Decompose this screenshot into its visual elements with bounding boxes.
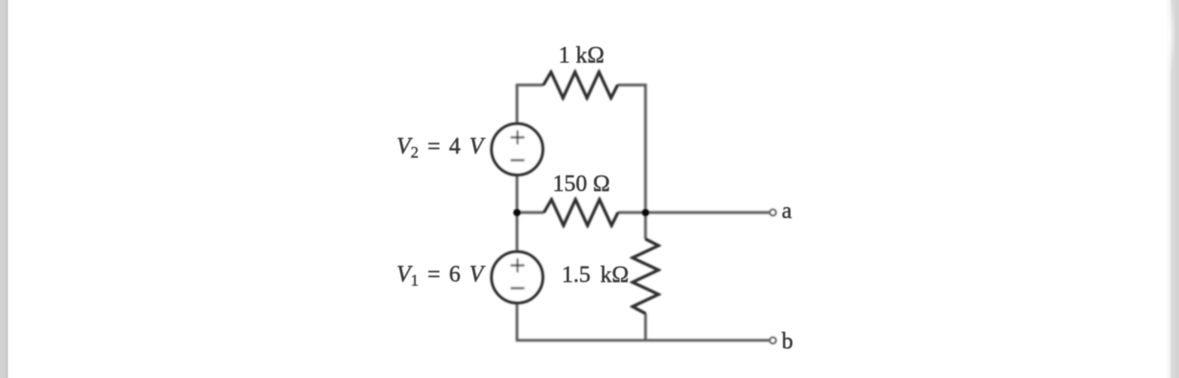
terminal a open circle [770, 209, 776, 215]
resistor R1 1 kOhm (top, zigzag) [543, 72, 617, 98]
resistor R3 1.5 kOhm (right branch, vertical zigzag) [633, 239, 659, 314]
page right edge shading [1166, 0, 1179, 378]
voltage source V2 minus sign [511, 159, 525, 161]
voltage source V1 circle core overlay [492, 252, 543, 303]
wire: top-left stub from V2 top up and right to 1k resistor [517, 85, 543, 124]
resistor R2 core overlay [544, 200, 618, 226]
resistor R2 150 Ohm (middle, zigzag) [544, 200, 618, 226]
voltage source V1 circle [492, 252, 543, 303]
voltage source V2 plus sign [511, 130, 525, 144]
wire: 150 ohm resistor right end through node B out to terminal a [618, 211, 770, 214]
resistor R3 core overlay [633, 239, 659, 314]
voltage source V1 minus sign [511, 287, 525, 289]
terminal b open circle [770, 337, 776, 343]
wire: node A to 150 ohm resistor left end [517, 211, 544, 214]
svg-text:a: a [782, 198, 792, 223]
node junction dot at node B (right) [642, 209, 649, 216]
terminal a circle core overlay [770, 209, 776, 215]
resistor R1 core overlay [543, 72, 617, 98]
svg-text:1 kΩ: 1 kΩ [559, 43, 605, 68]
page left edge shading [0, 0, 10, 378]
node A dot core overlay [514, 209, 520, 215]
svg-text:b: b [782, 329, 794, 354]
voltage source V2 circle [492, 124, 543, 175]
wire: from 1k resistor right end down the right branch to 1.5k resistor top [618, 85, 646, 239]
svg-text:150 Ω: 150 Ω [553, 171, 610, 196]
wire: V1 bottom down and along bottom rail to terminal b [517, 304, 770, 341]
terminal b circle core overlay [770, 337, 776, 343]
node B dot core overlay [642, 209, 648, 215]
wire: V2 bottom through node A to V1 top [516, 175, 519, 251]
node junction dot at node A (left) [513, 209, 520, 216]
svg-text:V1 = 6 V: V1 = 6 V [397, 262, 487, 290]
voltage source V1 plus sign [511, 258, 525, 272]
voltage source V2 circle core overlay [492, 124, 543, 175]
svg-text:1.5 kΩ: 1.5 kΩ [562, 262, 629, 287]
wire: 1.5k resistor bottom to bottom rail junction [644, 314, 647, 341]
page right edge top highlight [1164, 0, 1175, 78]
svg-text:V2 = 4 V: V2 = 4 V [397, 134, 487, 162]
